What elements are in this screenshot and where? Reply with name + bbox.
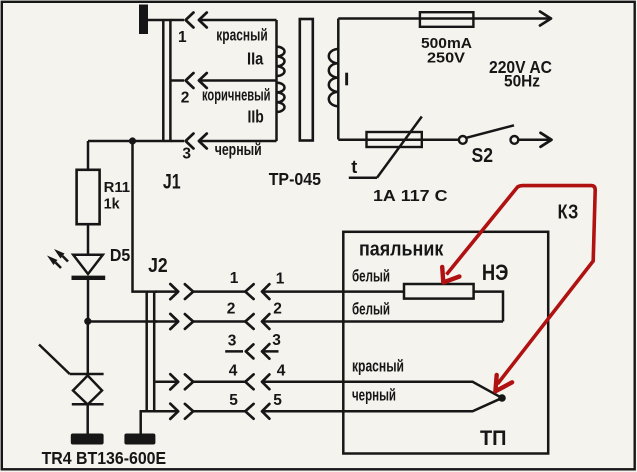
svg-text:3: 3	[182, 146, 191, 163]
wire J1 pin2 tap	[199, 79, 277, 82]
switch S2	[459, 125, 549, 144]
wire node B down to triac	[87, 321, 90, 374]
connector J1 rails	[163, 20, 170, 141]
wire terminal right to J2 pin5	[141, 411, 157, 433]
svg-text:КЗ: КЗ	[558, 201, 579, 223]
thermal fuse 1A 117 C	[349, 117, 422, 178]
svg-text:НЭ: НЭ	[482, 260, 508, 285]
svg-text:2: 2	[273, 301, 282, 318]
svg-text:черный: черный	[352, 386, 396, 405]
label I (primary)	[345, 73, 348, 86]
wire plug to J1 pin1	[148, 19, 172, 22]
fuse F1 500mA	[420, 12, 474, 27]
wire node A down to J2 pin1	[133, 141, 158, 292]
node A junction wire (R11 / J1.3 / J2.1)	[88, 140, 172, 143]
resistor R11	[77, 141, 100, 224]
wire НЭ right loop	[474, 292, 503, 322]
svg-text:IIa: IIa	[247, 49, 264, 69]
svg-text:S2: S2	[472, 145, 494, 167]
wire J2.1 to НЭ	[262, 290, 404, 293]
transformer core	[300, 19, 313, 141]
red arrowhead at НЭ	[442, 267, 459, 283]
LED D5	[47, 249, 105, 278]
svg-text:D5: D5	[110, 245, 131, 265]
terminal bar left	[71, 434, 104, 445]
mains arrow bottom	[541, 133, 552, 147]
mains plug bar X1	[139, 5, 148, 35]
heating element НЭ	[404, 284, 474, 299]
node A dot	[129, 137, 136, 144]
J2 pin 2	[156, 301, 282, 330]
svg-text:белый: белый	[352, 267, 390, 286]
wire J1 pin3 to secondary bottom	[199, 140, 277, 143]
transformer TP-045 secondary winding IIa/IIb	[277, 20, 285, 141]
J1 pin 3	[172, 134, 207, 163]
svg-text:J2: J2	[148, 255, 168, 277]
svg-text:50Hz: 50Hz	[504, 73, 540, 91]
wire triac to terminal	[86, 405, 89, 434]
red arrowhead at ТП	[495, 375, 512, 391]
J1 pin 2	[172, 73, 207, 107]
soldering iron box паяльник	[343, 232, 548, 454]
svg-text:J1: J1	[163, 171, 181, 194]
svg-text:1: 1	[276, 271, 285, 288]
svg-text:1k: 1k	[104, 195, 121, 212]
wire LED to node B	[87, 280, 90, 321]
terminal bar right	[124, 434, 155, 445]
svg-text:TR4 BT136-600E: TR4 BT136-600E	[42, 448, 167, 468]
J2 pin 1	[156, 270, 285, 299]
svg-text:коричневый: коричневый	[202, 86, 271, 105]
svg-text:паяльник: паяльник	[359, 239, 444, 261]
wire J2.5 черный to ТП	[262, 398, 502, 411]
thermocouple ТП node dot	[498, 394, 506, 402]
svg-text:5: 5	[273, 392, 282, 409]
svg-text:1: 1	[230, 270, 239, 287]
svg-text:5: 5	[229, 392, 238, 409]
svg-text:красный: красный	[216, 25, 267, 44]
svg-text:1А 117 С: 1А 117 С	[373, 188, 448, 205]
svg-text:IIb: IIb	[248, 107, 264, 127]
svg-text:t: t	[351, 157, 357, 177]
transformer primary winding I	[329, 19, 339, 140]
wire J1 pin1 to secondary top	[199, 19, 277, 22]
svg-text:R11: R11	[104, 179, 131, 196]
svg-text:белый: белый	[352, 300, 390, 319]
red callout path КЗ	[447, 186, 596, 384]
connector J2 rails	[147, 291, 155, 411]
svg-text:2: 2	[181, 90, 190, 107]
svg-text:3: 3	[272, 332, 281, 349]
svg-text:1: 1	[178, 29, 187, 46]
J2 pin 3 (unconnected)	[225, 332, 281, 359]
mains arrow top	[540, 12, 551, 26]
svg-text:2: 2	[227, 301, 236, 318]
wire primary bottom to thermal fuse	[338, 138, 459, 141]
svg-text:черный: черный	[215, 140, 262, 159]
wire primary top to fuse and mains	[338, 17, 548, 20]
svg-text:ТП: ТП	[480, 427, 507, 450]
wire node B to J2 pin2	[88, 320, 157, 323]
wire J2.2 to НЭ return	[262, 320, 503, 323]
node B dot	[84, 318, 91, 325]
wire J2.4 красный to ТП	[262, 382, 502, 398]
svg-text:красный: красный	[352, 357, 404, 376]
svg-text:ТР-045: ТР-045	[269, 170, 322, 189]
J1 pin 1	[172, 13, 207, 47]
svg-text:3: 3	[228, 333, 237, 350]
svg-text:4: 4	[229, 363, 238, 380]
wire R11 to LED	[87, 224, 90, 255]
svg-text:250V: 250V	[427, 50, 465, 67]
svg-text:4: 4	[277, 363, 286, 380]
triac TR4	[39, 345, 104, 405]
J2 pin 4	[156, 363, 286, 390]
J2 pin 5	[156, 392, 283, 419]
